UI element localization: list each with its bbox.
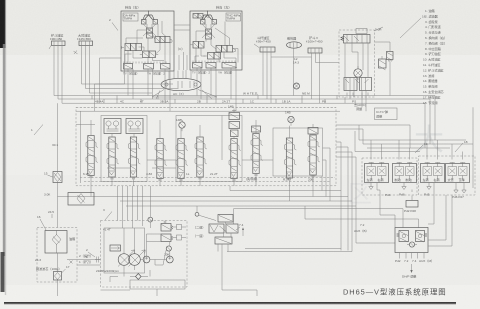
relief valve circle 14a: [176, 118, 185, 131]
pump area internal wires: [110, 227, 186, 282]
svg-text:左转: 左转: [367, 177, 373, 182]
wire: pilot bus line B: [58, 99, 430, 144]
svg-text:19: 19: [424, 142, 428, 146]
tank side labels: [79, 253, 93, 264]
steering pump: [166, 256, 173, 263]
wire: steering unit drops to bus: [345, 96, 366, 112]
transmission valve left spool: [397, 231, 409, 243]
svg-text:16: 16: [422, 15, 426, 19]
svg-text:转向（右）: 转向（右）: [125, 5, 140, 10]
pilot block 7 right valve row: [216, 46, 236, 53]
inter-block link wires: [174, 25, 190, 70]
wire: arm connector drops: [263, 52, 271, 103]
svg-text:18: 18: [464, 140, 468, 144]
main control valve bank dashed enclosure: [76, 107, 336, 186]
svg-text:PS: PS: [352, 100, 356, 104]
pilot block 7 reducing valve pair: [206, 29, 212, 39]
spool section 5: [176, 139, 188, 182]
wire: block6 left riser: [95, 50, 125, 111]
svg-text:Pd2 Pd8: Pd2 Pd8: [404, 209, 416, 213]
bank section frame around spools 5-7: [176, 116, 242, 182]
pump area small circle top: [148, 217, 153, 222]
svg-text:30.1: 30.1: [52, 143, 58, 147]
pilot cluster speed labels: [193, 225, 205, 239]
label 16 leader: [37, 215, 46, 230]
wire: radiator drop: [293, 48, 300, 95]
relief valve pair upper: [161, 221, 182, 232]
spool section 2: [107, 137, 119, 180]
svg-text:转向（左）: 转向（左）: [216, 5, 231, 10]
svg-text:Pd2: Pd2: [395, 259, 401, 263]
pilot block 7 center lower valve: [203, 53, 220, 60]
svg-text:3B 3A: 3B 3A: [160, 100, 169, 104]
steering aux valve: [379, 56, 387, 70]
svg-text:2B: 2B: [197, 100, 201, 104]
pilot block 7 hand lever: [201, 11, 217, 25]
pilot block 6 bottom port valves: [124, 64, 171, 70]
drain below clutch 3: [424, 183, 431, 197]
svg-text:5.0R: 5.0R: [375, 28, 382, 32]
transmission valve center check: [407, 242, 417, 247]
svg-text:24.3: 24.3: [35, 258, 41, 262]
wire: block6 drops to bus: [128, 69, 170, 111]
check valve stack over spool 7: [228, 105, 240, 137]
suction strainer 17: [36, 253, 70, 296]
engine pump group dashed box: [101, 221, 188, 288]
legend list: [423, 8, 447, 105]
pilot block 6 internal wires: [125, 21, 170, 64]
bus mid labels: [243, 92, 310, 96]
spool section 9: [285, 138, 297, 181]
svg-text:W H TE ZL: W H TE ZL: [243, 92, 259, 96]
drains below clutch 4: [454, 186, 458, 193]
wire: bucket connector drops: [312, 53, 340, 103]
pilot block 6 reducing valve pair: [147, 28, 153, 38]
clutch group 19a dashed enclosure: [362, 158, 417, 195]
svg-text:1: 1: [86, 255, 88, 259]
svg-text:（一速）: （一速）: [193, 233, 205, 238]
transmission port labels: [395, 259, 434, 263]
svg-text:（C）: （C）: [176, 47, 184, 51]
port labels on bus: [95, 100, 356, 104]
pilot block 6 cross linkage: [143, 24, 156, 36]
callout 18 leader: [455, 140, 468, 152]
wire: routing staircase upper: [120, 142, 356, 252]
wire: routing staircase lower returns: [227, 209, 352, 252]
pump box bottom stub: [101, 280, 258, 296]
pilot block 6 right valve row: [155, 37, 172, 44]
svg-text:4T: 4T: [140, 100, 144, 104]
wire: staircase left drops from bank: [290, 148, 331, 201]
svg-text:7.4: 7.4: [412, 259, 417, 263]
svg-text:1（铲刀）: 1（铲刀）: [79, 259, 93, 264]
svg-text:1B 1A: 1B 1A: [282, 100, 291, 104]
block6 bottom tick row: [124, 62, 166, 64]
pilot cap over spool 3: [126, 119, 143, 134]
pilot block 7 top-left small valves: [193, 14, 209, 19]
scan bottom rule: [4, 302, 456, 305]
svg-text:1: 1: [31, 128, 33, 132]
callout 1 leader: [31, 125, 43, 136]
pilot block 6 corner label box: [123, 13, 138, 21]
wire: pump shafts: [95, 257, 166, 263]
spool section 8: [251, 134, 263, 177]
pilot cluster junction circle: [195, 206, 216, 221]
svg-text:24.5: 24.5: [48, 210, 54, 214]
relief valve circle 14b: [285, 111, 294, 126]
svg-text:网滤滤芯（100μ）: 网滤滤芯（100μ）: [36, 266, 62, 271]
wire: bucket line jumper: [271, 56, 312, 58]
svg-text:（二速）: （二速）: [193, 225, 205, 230]
wire: risers bank to pump: [118, 186, 151, 228]
gauge box: [110, 245, 121, 251]
main pump 3 (left): [118, 250, 135, 267]
shuttle manifold oval: [161, 78, 201, 96]
svg-text:TY（石油）: TY（石油）: [123, 71, 139, 76]
radiator connector: [287, 36, 302, 49]
pilot block 6 center lower valve: [140, 51, 158, 58]
bank bottom dashed collector: [80, 178, 335, 182]
svg-text:R1P: R1P: [283, 178, 289, 182]
spool section 10: [308, 135, 320, 178]
steering unit 8 dashed enclosure: [339, 30, 375, 97]
steering unit bottom label: [354, 102, 366, 111]
spool section 1: [86, 136, 98, 179]
spool section 7: [229, 139, 241, 182]
svg-text:Pd4: Pd4: [385, 193, 391, 197]
svg-text:14.3: 14.3: [293, 61, 299, 65]
bank section frame around spools 2-3: [101, 116, 147, 182]
wire: mid horizontals to transmission block: [230, 186, 419, 243]
clutch pack 4: [446, 163, 470, 183]
wire: return line 3.0K: [44, 193, 348, 251]
svg-text:DH/P 调整: DH/P 调整: [402, 274, 416, 279]
transmission control valve block 20: [395, 228, 428, 253]
svg-text:大臂: 大臂: [448, 177, 454, 182]
wire: blade connector drops: [54, 46, 62, 104]
svg-text:Pd6 Pd7: Pd6 Pd7: [452, 195, 464, 199]
clutch pack 2: [393, 163, 417, 183]
svg-text:P0: P0: [322, 100, 326, 104]
svg-text:4B 4A: 4B 4A: [95, 100, 104, 104]
svg-text:14B: 14B: [228, 105, 234, 109]
wire: right edge vertical: [470, 107, 473, 188]
pump leader 2: [86, 248, 95, 259]
cylinder connector 12 (bucket cylinder): [306, 35, 323, 53]
label 24.3: [35, 258, 41, 262]
block7 bottom tick row: [193, 61, 235, 63]
svg-text:AUX（M）: AUX（M）: [419, 259, 434, 263]
pilot block 6 hand lever: [142, 11, 158, 25]
wire: bus line D: [76, 110, 340, 112]
drain label Pd4: [385, 193, 391, 197]
svg-text:制动: 制动: [395, 177, 401, 182]
svg-text:2A 2T: 2A 2T: [222, 100, 230, 104]
filter 15 on left column: [44, 172, 62, 183]
svg-text:TMPH: TMPH: [124, 17, 133, 21]
wire: pilot cluster drops: [218, 222, 231, 285]
pump speed label: [96, 269, 119, 273]
pilot block 7 corner label box: [226, 13, 241, 21]
svg-text:3: 3: [103, 208, 105, 212]
svg-text:右转: 右转: [378, 177, 384, 182]
svg-text:¢125×650: ¢125×650: [77, 37, 91, 41]
relief valve pair lower: [161, 234, 182, 242]
bank inner frame left: [76, 111, 95, 183]
pilot relief 20K: [164, 246, 171, 257]
spool section 3: [129, 137, 141, 180]
check valve diamond: [130, 274, 148, 280]
svg-text:17: 17: [66, 265, 70, 269]
wire: bus drops to clutch stems: [371, 140, 463, 160]
svg-text:Pd8: Pd8: [399, 193, 405, 197]
svg-text:TMPH: TMPH: [227, 17, 236, 21]
svg-text:¢90×450: ¢90×450: [50, 37, 62, 41]
svg-text:¢95×? 450: ¢95×? 450: [256, 40, 271, 44]
hydraulic tank dashed box: [37, 228, 77, 283]
cylinder connector 10 (boom cylinder): [74, 33, 93, 55]
svg-text:6-WL: 6-WL: [83, 172, 91, 176]
wire: boom connector drops: [82, 46, 179, 94]
callout 19 leader: [415, 142, 428, 153]
bank bottom port stubs: [91, 174, 313, 197]
wire: bank top dash-dot boundary: [76, 106, 336, 108]
drain below clutch 2: [399, 183, 406, 197]
svg-text:散热器: 散热器: [287, 36, 296, 41]
svg-text:7.2: 7.2: [404, 259, 409, 263]
transmission valve right spool: [416, 231, 428, 243]
watermark: [348, 124, 444, 208]
drain below clutch 1: [369, 183, 373, 190]
wire: clutch4 stubs: [456, 178, 464, 186]
svg-text:16: 16: [37, 215, 41, 219]
transmission valve port stubs: [400, 253, 425, 259]
callout leader pump box: [103, 208, 112, 220]
svg-text:油箱: 油箱: [69, 236, 75, 241]
svg-text:YA（石油）: YA（石油）: [218, 70, 234, 75]
pilot supply cluster 7.4: [209, 215, 244, 245]
steering unit direction valves: [344, 78, 372, 96]
steering unit gerotor: [352, 43, 362, 80]
cluster leader arrow: [242, 227, 244, 236]
svg-text:C/J“C”弹: C/J“C”弹: [376, 109, 388, 114]
charge pump: [143, 256, 150, 263]
svg-text:7.4: 7.4: [239, 223, 244, 227]
svg-text:左转: 左转: [423, 177, 429, 182]
svg-text:14B: 14B: [176, 118, 182, 122]
clutch pack 3: [421, 163, 445, 183]
steering unit priority spool: [341, 29, 370, 44]
svg-text:¢100×? 450: ¢100×? 450: [306, 40, 323, 44]
steering unit internal wires: [345, 43, 368, 97]
pump group inner frame: [104, 228, 145, 273]
label 24.5: [48, 210, 54, 218]
scan left black bar: [0, 0, 6, 295]
callout leader to bank: [109, 18, 118, 31]
cylinder connector 11 (arm cylinder): [254, 35, 275, 52]
tank strainer box: [45, 231, 75, 254]
wire: block6 drops to oval: [169, 70, 191, 79]
wire: clutch feed bus: [336, 125, 470, 152]
label 30.1: [52, 143, 58, 147]
callout 8 leader: [400, 15, 426, 39]
small cap over spool 8: [252, 126, 261, 132]
main pump 3 (right): [129, 250, 146, 267]
svg-text:3.0K: 3.0K: [44, 193, 51, 197]
wire: block7 drops to bus: [197, 68, 236, 111]
pilot cap over spool 2: [104, 119, 121, 134]
transmission outlet arrow: [402, 264, 416, 279]
svg-text:21MPa/2200rpm: 21MPa/2200rpm: [96, 269, 119, 273]
pilot block 6 bottom labels: [123, 71, 165, 76]
spool section 4: [155, 139, 167, 182]
svg-text:15: 15: [44, 172, 48, 176]
svg-text:7.2: 7.2: [360, 223, 365, 227]
pilot block 6 left valve row: [122, 44, 142, 51]
wire: left return column: [57, 103, 59, 227]
clutch pack 1: [365, 163, 389, 183]
svg-text:AUX（B）: AUX（B）: [354, 229, 369, 233]
bank section frame around spools 9-10: [273, 128, 323, 176]
svg-text:YA（石油）2: YA（石油）2: [147, 71, 165, 76]
wire: pilot bus line C: [62, 103, 425, 148]
wire: clutch drops to transmission block: [377, 183, 452, 247]
pilot block 7 left valve row: [191, 42, 205, 49]
bank internal tie lines: [91, 116, 313, 169]
svg-text:1L: 1L: [186, 172, 190, 176]
pilot block 7 bottom port valves: [193, 63, 238, 69]
svg-text:(先导阀): (先导阀): [246, 176, 257, 181]
svg-text:20B: 20B: [308, 178, 314, 182]
pilot valve block 6 (steer right) outer box: [121, 5, 174, 72]
title caption: [343, 288, 447, 297]
Pd2 Pd8 junction box: [404, 190, 418, 214]
small cap over spool 10: [308, 124, 318, 134]
wire: tank to pump suction: [67, 260, 101, 266]
cylinder connector 9 (blade cylinder): [49, 33, 65, 50]
svg-text:右转: 右转: [434, 177, 440, 182]
steering unit label box: [375, 108, 398, 120]
label 24.3b: [354, 223, 369, 233]
pilot block 7 cross linkage: [202, 24, 215, 38]
clutch group 19b dashed enclosure: [419, 156, 476, 195]
bank bottom labels: [83, 172, 314, 232]
spool section 6: [195, 137, 207, 180]
wire: pilot bus line A: [54, 96, 435, 141]
wire: oval trapezoid to bus: [152, 90, 217, 100]
svg-text:调整: 调整: [356, 106, 362, 111]
svg-text:铲斗.V: 铲斗.V: [309, 35, 319, 40]
pilot block 7 bottom labels: [192, 70, 234, 75]
svg-text:Pd5: Pd5: [424, 193, 430, 197]
svg-text:2L 2T: 2L 2T: [210, 172, 218, 176]
svg-text:制动: 制动: [406, 177, 412, 182]
svg-text:4.83: 4.83: [146, 172, 152, 176]
svg-text:2: 2: [86, 248, 88, 252]
svg-text:NE M: NE M: [302, 92, 310, 96]
pilot valve block 7 (steer left) outer box: [190, 5, 242, 71]
bus port ticks: [92, 96, 337, 104]
pilot block 7 internal wires: [195, 22, 238, 63]
svg-text:2: 2: [109, 18, 111, 22]
svg-text:调整: 调整: [376, 114, 382, 119]
steering relief valve: [374, 27, 393, 96]
filter 13 in return line: [68, 193, 94, 206]
svg-text:下降: 下降: [459, 177, 465, 182]
svg-text:14B: 14B: [285, 111, 291, 115]
